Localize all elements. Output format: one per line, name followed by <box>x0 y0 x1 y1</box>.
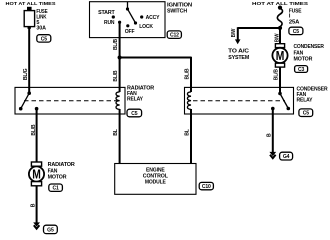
wire branch to condenser fan relay coil <box>120 57 191 92</box>
svg-text:FAN: FAN <box>294 50 304 56</box>
ignition switch lever (pivot to LOCK) <box>126 2 136 23</box>
connector C12 <box>167 31 181 39</box>
fuse 1 25A (fusible link squiggle) <box>277 8 301 28</box>
ignition switch contact OFF <box>125 24 135 35</box>
svg-text:BL/B: BL/B <box>113 39 119 50</box>
svg-text:C10: C10 <box>202 184 211 190</box>
svg-text:MOTOR: MOTOR <box>294 57 313 63</box>
svg-text:LOCK: LOCK <box>139 24 153 30</box>
node dot at fuse 1 top <box>278 6 282 10</box>
wire B/W branch to A/C system <box>231 27 280 44</box>
wire condenser relay coil to ECM (BL) <box>184 109 191 164</box>
svg-text:C5: C5 <box>41 36 48 42</box>
connector C5 (condenser fan relay) <box>299 109 313 117</box>
radiator fan relay label <box>127 86 154 103</box>
svg-text:BL/B: BL/B <box>113 70 119 81</box>
wire radiator relay coil to ECM (BL) <box>113 109 120 164</box>
svg-text:B/W: B/W <box>275 33 281 42</box>
svg-text:M: M <box>32 167 41 182</box>
condenser fan relay contacts and lever <box>271 92 290 111</box>
engine control module U2 (box) <box>115 164 196 195</box>
svg-text:TO A/C: TO A/C <box>228 49 249 55</box>
junction node <box>118 55 122 59</box>
svg-text:B: B <box>31 203 37 207</box>
svg-text:25A: 25A <box>289 19 299 25</box>
radiator fan relay K1 (box) <box>15 87 125 114</box>
svg-text:ACCY: ACCY <box>146 15 160 21</box>
condenser fan relay coil <box>187 92 191 110</box>
radiator fan relay coil <box>116 92 120 110</box>
svg-text:MOTOR: MOTOR <box>48 175 67 181</box>
svg-text:C5: C5 <box>293 29 300 35</box>
wire B radiator fan motor to ground <box>31 186 37 223</box>
wire BL/B junction down to radiator fan relay coil <box>113 58 120 93</box>
ground G5 symbol <box>33 222 40 228</box>
ignition switch contact START <box>98 10 115 19</box>
svg-text:C5: C5 <box>131 111 138 117</box>
svg-text:M: M <box>276 48 285 63</box>
connector C3 <box>295 66 308 73</box>
connector C5 (fuse link) <box>37 35 51 43</box>
svg-text:RADIATOR: RADIATOR <box>48 162 75 168</box>
svg-text:C12: C12 <box>170 33 179 39</box>
svg-text:B: B <box>266 133 272 137</box>
svg-text:MODULE: MODULE <box>145 179 166 185</box>
ignition switch U (box) <box>90 2 166 38</box>
wire BL/B radiator relay to radiator fan motor <box>31 109 37 162</box>
junction node B/W <box>278 26 282 30</box>
wire B condenser relay to ground <box>266 109 272 153</box>
svg-text:FUSE: FUSE <box>289 8 302 14</box>
svg-text:G4: G4 <box>283 154 290 160</box>
connector C5 (fuse 1) <box>289 27 303 35</box>
svg-text:BL/B: BL/B <box>184 68 190 79</box>
ignition switch contact LOCK <box>134 21 153 30</box>
svg-text:START: START <box>98 10 115 16</box>
svg-text:SYSTEM: SYSTEM <box>228 55 249 61</box>
svg-text:CONDENSER: CONDENSER <box>294 44 324 50</box>
svg-text:BL/B: BL/B <box>273 69 279 80</box>
ground label G4 <box>280 152 293 160</box>
radiator fan relay actuator dashed line <box>24 100 117 102</box>
svg-text:RELAY: RELAY <box>127 97 143 103</box>
svg-text:BL/B: BL/B <box>31 124 37 135</box>
ignition switch label <box>167 3 192 15</box>
condenser fan motor M2 <box>272 44 324 67</box>
svg-text:HOT AT ALL TIMES: HOT AT ALL TIMES <box>6 1 57 7</box>
fuse link 5 30A <box>24 7 48 32</box>
wire BL/B ignition switch RUN to junction <box>113 22 120 57</box>
ground G4 symbol <box>269 152 276 158</box>
svg-text:RELAY: RELAY <box>297 97 313 103</box>
svg-text:BL: BL <box>184 129 190 136</box>
svg-text:SWITCH: SWITCH <box>167 9 187 15</box>
wire BL/G fuse link to radiator fan relay <box>23 27 29 93</box>
svg-text:C3: C3 <box>298 67 305 73</box>
wire B/W junction to condenser fan motor <box>275 28 281 44</box>
svg-text:30A: 30A <box>36 26 46 32</box>
node: TO A/C SYSTEM <box>228 49 249 61</box>
radiator fan relay contacts and lever <box>19 91 38 110</box>
connector C5 (radiator fan relay) <box>127 109 142 117</box>
radiator fan motor M1 <box>29 162 75 186</box>
ground label G5 <box>44 225 58 233</box>
svg-text:BL/G: BL/G <box>23 68 29 80</box>
svg-text:C1: C1 <box>52 186 59 192</box>
svg-text:FAN: FAN <box>48 168 58 174</box>
engine control module label <box>143 168 169 186</box>
condenser fan relay K2 (box) <box>185 87 294 114</box>
connector C10 <box>199 182 213 190</box>
svg-text:C5: C5 <box>303 111 310 117</box>
connector C1 <box>49 184 63 192</box>
svg-text:RUN: RUN <box>104 20 115 26</box>
wire BL/B condenser fan motor to relay contact <box>273 67 280 93</box>
svg-text:OFF: OFF <box>125 29 135 35</box>
condenser fan relay label <box>297 86 328 103</box>
svg-text:G5: G5 <box>47 228 54 234</box>
svg-text:B/W: B/W <box>231 28 237 37</box>
condenser fan relay actuator dashed line <box>193 100 285 102</box>
ignition switch contact RUN <box>104 20 121 26</box>
svg-text:BL: BL <box>113 129 119 136</box>
ignition switch contact ACCY <box>140 15 160 21</box>
